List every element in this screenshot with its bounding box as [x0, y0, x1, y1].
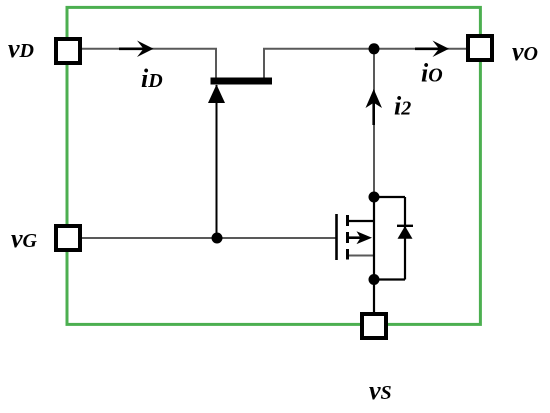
current arrow i2 — [372, 100, 375, 125]
body diode DB cathode bar — [397, 225, 413, 227]
node gate junction dot — [212, 233, 223, 244]
transistor M1 gate bar — [335, 214, 338, 260]
transistor M1 drain stub — [346, 220, 374, 222]
source node dot — [369, 274, 380, 285]
diode D1 cathode bar — [211, 78, 273, 85]
wire source stub (gray) — [347, 255, 374, 257]
node A junction dot — [369, 43, 380, 54]
wire diode to node A (gray) — [264, 49, 374, 78]
body diode branch bottom wire — [374, 278, 405, 280]
wire node A down to drain node (gray) — [373, 49, 375, 197]
diode D1 anode arrow — [208, 85, 225, 104]
wire anode lead down to gate net (black) — [216, 85, 218, 238]
body diode branch top wire — [374, 196, 405, 198]
terminal vO square — [468, 36, 492, 60]
wire node A to vO (gray) — [374, 48, 466, 50]
svg-text:i2: i2 — [394, 92, 411, 121]
svg-text:vO: vO — [512, 37, 538, 66]
transistor M1 body arrow — [347, 236, 362, 239]
terminal vG square — [56, 226, 80, 250]
wire vD to diode (gray) — [82, 49, 216, 78]
transistor M1 channel dashes — [346, 215, 349, 226]
wire vG to gate (gray) — [82, 237, 336, 239]
terminal vS square — [362, 314, 386, 338]
body diode DB triangle — [398, 226, 413, 239]
svg-text:vD: vD — [8, 34, 34, 63]
current arrow iO — [415, 47, 442, 50]
wire source down to vS terminal (black) — [373, 280, 375, 313]
svg-text:vG: vG — [11, 224, 38, 253]
boundary box (green) — [67, 7, 480, 324]
transistor M1 drain/source vertical — [373, 197, 375, 280]
svg-text:vS: vS — [369, 376, 392, 405]
drain node dot — [369, 192, 380, 203]
body diode branch vertical — [404, 197, 406, 280]
terminal vD square — [56, 39, 80, 63]
current arrow iD — [119, 47, 146, 50]
svg-text:iD: iD — [141, 64, 163, 93]
svg-text:iO: iO — [421, 59, 443, 88]
